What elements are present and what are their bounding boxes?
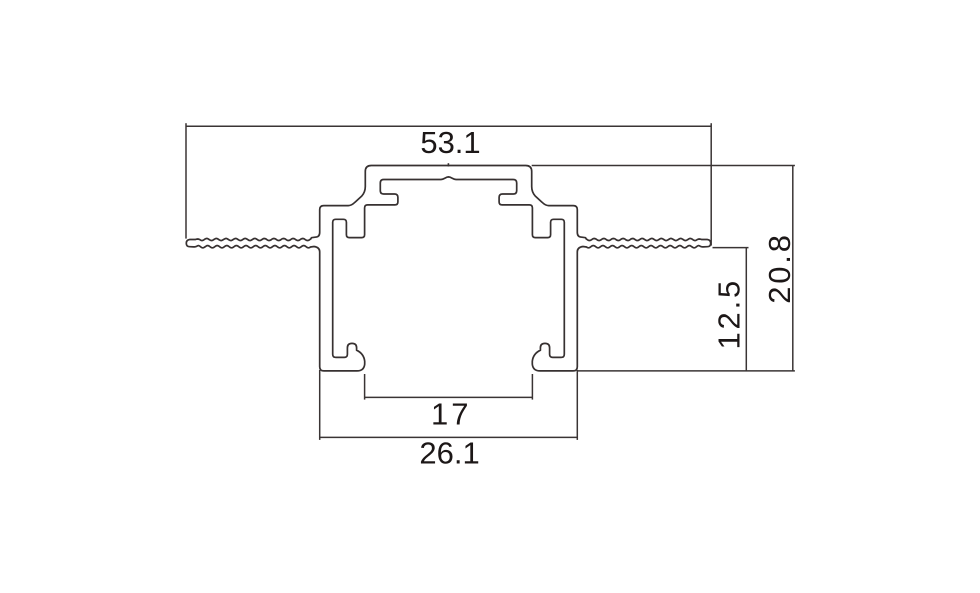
svg-text:53.1: 53.1: [420, 125, 480, 160]
dim 53.1 line: [186, 125, 711, 127]
dim 17 line: [365, 396, 533, 398]
dim 12.5 ext top: [713, 247, 749, 249]
dim 17 ext left: [364, 374, 366, 400]
dim 26.1 ext left: [319, 370, 321, 440]
dim 53.1 ext left: [185, 123, 187, 238]
svg-text:12.5: 12.5: [712, 278, 747, 350]
dim 20.8 ext top: [532, 165, 795, 167]
svg-text:17: 17: [431, 397, 471, 432]
svg-text:26.1: 26.1: [419, 436, 479, 471]
profile cross-section outline: [186, 166, 710, 371]
dim 26.1 line: [320, 436, 578, 438]
dim 12.5 line: [745, 248, 747, 371]
dim 17 ext right: [531, 374, 533, 400]
center tick on hat top: [447, 163, 449, 166]
svg-text:20.8: 20.8: [762, 232, 797, 304]
dim 20.8/12.5 ext bottom: [577, 370, 795, 372]
dim 20.8 line: [792, 166, 794, 371]
dim 26.1 ext right: [576, 370, 578, 440]
dim 53.1 ext right: [710, 123, 712, 245]
